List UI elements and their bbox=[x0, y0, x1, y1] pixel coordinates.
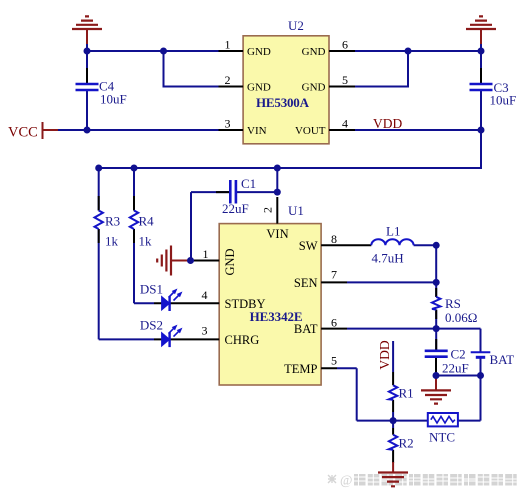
svg-text:5: 5 bbox=[342, 73, 348, 87]
svg-text:C1: C1 bbox=[241, 176, 256, 191]
svg-text:GND: GND bbox=[223, 248, 237, 275]
svg-text:1k: 1k bbox=[105, 234, 119, 249]
svg-text:1k: 1k bbox=[139, 234, 153, 249]
svg-text:DS1: DS1 bbox=[140, 282, 163, 297]
svg-text:STDBY: STDBY bbox=[225, 297, 266, 311]
svg-text:VDD: VDD bbox=[377, 340, 392, 369]
svg-text:1: 1 bbox=[203, 247, 209, 261]
svg-text:GND: GND bbox=[302, 46, 326, 58]
svg-text:BAT: BAT bbox=[490, 352, 515, 367]
svg-text:SEN: SEN bbox=[294, 276, 318, 290]
svg-text:8: 8 bbox=[331, 232, 337, 246]
svg-text:R3: R3 bbox=[105, 214, 120, 229]
svg-text:3: 3 bbox=[225, 117, 231, 131]
svg-text:R4: R4 bbox=[139, 214, 155, 229]
svg-text:6: 6 bbox=[331, 316, 337, 330]
svg-text:L1: L1 bbox=[386, 224, 400, 239]
svg-text:@: @ bbox=[340, 473, 352, 488]
svg-text:BAT: BAT bbox=[294, 322, 318, 336]
svg-text:6: 6 bbox=[342, 38, 348, 52]
svg-text:SW: SW bbox=[299, 239, 318, 253]
svg-text:R2: R2 bbox=[399, 436, 414, 451]
svg-text:CHRG: CHRG bbox=[225, 333, 260, 347]
svg-text:4: 4 bbox=[202, 288, 208, 302]
svg-text:C2: C2 bbox=[451, 347, 466, 362]
svg-text:3: 3 bbox=[202, 324, 208, 338]
svg-text:U2: U2 bbox=[288, 18, 304, 33]
svg-text:GND: GND bbox=[247, 46, 271, 58]
svg-text:VDD: VDD bbox=[373, 116, 402, 131]
svg-text:4: 4 bbox=[342, 117, 348, 131]
svg-text:HE5300A: HE5300A bbox=[256, 95, 310, 110]
svg-text:VOUT: VOUT bbox=[295, 125, 326, 137]
svg-text:GND: GND bbox=[247, 82, 271, 94]
svg-text:7: 7 bbox=[331, 268, 337, 282]
svg-text:10uF: 10uF bbox=[100, 92, 127, 107]
svg-text:22uF: 22uF bbox=[222, 201, 249, 216]
svg-text:GND: GND bbox=[302, 82, 326, 94]
svg-text:22uF: 22uF bbox=[442, 361, 469, 376]
svg-text:2: 2 bbox=[225, 73, 231, 87]
svg-text:1: 1 bbox=[225, 38, 231, 52]
svg-text:DS2: DS2 bbox=[140, 318, 163, 333]
svg-text:R1: R1 bbox=[399, 386, 414, 401]
svg-text:0.06Ω: 0.06Ω bbox=[445, 310, 477, 325]
svg-text:VIN: VIN bbox=[266, 227, 288, 241]
svg-text:VCC: VCC bbox=[8, 125, 38, 141]
svg-text:VIN: VIN bbox=[247, 125, 267, 137]
svg-text:NTC: NTC bbox=[429, 430, 455, 445]
svg-text:TEMP: TEMP bbox=[284, 362, 317, 376]
svg-text:2: 2 bbox=[261, 207, 275, 213]
svg-text:10uF: 10uF bbox=[490, 93, 517, 108]
svg-text:5: 5 bbox=[331, 354, 337, 368]
svg-text:4.7uH: 4.7uH bbox=[372, 251, 404, 266]
svg-text:RS: RS bbox=[445, 296, 461, 311]
svg-text:U1: U1 bbox=[288, 203, 304, 218]
